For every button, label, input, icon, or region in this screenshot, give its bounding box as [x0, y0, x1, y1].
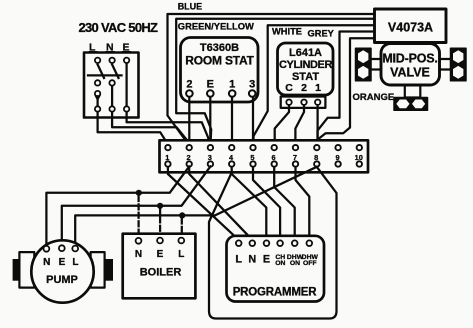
svg-text:1: 1 — [165, 153, 169, 162]
node L label (supply) — [89, 42, 98, 54]
room stat terminal 1 — [229, 90, 236, 97]
svg-text:OFF: OFF — [303, 260, 317, 267]
wire E column — [125, 64, 127, 106]
programmer terminal DHW ON — [292, 240, 298, 246]
programmer box — [227, 236, 325, 302]
wire blue (valve to terminal 2) — [168, 14, 375, 143]
svg-text:WHITE: WHITE — [272, 27, 302, 37]
junction terminal strip — [160, 140, 369, 172]
svg-text:BLUE: BLUE — [178, 1, 203, 11]
wire pump L / boiler L to terminal 8 — [75, 167, 317, 246]
svg-text:C: C — [285, 82, 293, 94]
boiler box — [123, 234, 196, 299]
programmer terminal L — [236, 240, 242, 246]
terminal 10 — [355, 145, 363, 167]
wire cyl stat 2 to terminal 7 — [295, 106, 304, 145]
cyl stat terminal 1 — [315, 100, 320, 105]
supply terminal N bottom — [109, 106, 114, 111]
cyl stat terminal 2 — [301, 100, 306, 105]
fuse F1 — [94, 91, 101, 102]
cyl stat terminal C — [286, 100, 291, 105]
pump body — [31, 240, 93, 302]
valve left pipe flange — [356, 48, 372, 80]
svg-text:L: L — [235, 254, 242, 266]
svg-text:T6360B: T6360B — [200, 42, 239, 54]
terminal 2 — [187, 145, 192, 167]
supply mid terminal L — [95, 80, 100, 85]
valve bottom pipe flange — [394, 98, 428, 111]
switch SW1 bar — [88, 74, 122, 76]
pump right flange — [91, 252, 113, 288]
svg-text:VALVE: VALVE — [390, 66, 430, 80]
svg-text:2: 2 — [186, 79, 192, 91]
cylinder stat terminal block — [281, 97, 326, 108]
wire terminal 2 to programmer N — [189, 167, 252, 240]
wire room stat 2 to terminal 2 — [188, 97, 190, 144]
pump terminal L — [72, 246, 78, 252]
wire cyl stat C to terminal 6 — [275, 106, 289, 145]
svg-text:3: 3 — [249, 79, 255, 91]
svg-text:PUMP: PUMP — [46, 274, 78, 286]
terminal 6 — [272, 145, 277, 167]
svg-text:6: 6 — [272, 153, 276, 162]
wire dashed to boiler L — [181, 219, 183, 238]
wire room stat 1 to terminal 4 — [231, 97, 233, 144]
wire pump E / boiler E to terminal 3 — [62, 167, 211, 246]
programmer terminal N — [250, 240, 256, 246]
supply isolator box — [84, 53, 139, 118]
svg-text:3: 3 — [208, 153, 212, 162]
supply terminal L top — [95, 58, 100, 63]
wire supply L to terminal 1 — [98, 113, 168, 145]
svg-text:E: E — [263, 254, 270, 266]
wire supply E to terminal 3 — [127, 113, 211, 145]
programmer terminal E — [264, 240, 270, 246]
valve V4073A box — [375, 9, 447, 43]
junction dot boiler E — [157, 203, 163, 209]
svg-text:7: 7 — [293, 153, 297, 162]
junction dot boiler N — [136, 190, 142, 196]
valve right pipe hex bottom — [453, 66, 463, 79]
supply terminal L bottom — [95, 106, 100, 111]
pump terminal E — [59, 245, 65, 251]
wire dashed to boiler N — [137, 196, 139, 238]
svg-text:MID-POS.: MID-POS. — [382, 52, 437, 66]
room stat terminal 3 — [249, 90, 256, 97]
programmer terminal CH ON — [277, 240, 283, 246]
svg-text:ON: ON — [275, 260, 285, 267]
boiler terminal N — [136, 238, 142, 244]
svg-text:CYLINDER: CYLINDER — [279, 59, 332, 71]
cylinder stat L641A box — [278, 43, 334, 95]
svg-text:1: 1 — [229, 79, 235, 91]
switch SW1 blade L — [98, 65, 104, 79]
valve left pipe hex top — [358, 50, 368, 63]
svg-text:E: E — [59, 257, 66, 268]
svg-text:N: N — [248, 254, 256, 266]
node N label (supply) — [106, 42, 116, 54]
supply terminal E bottom — [124, 106, 129, 111]
supply terminal E top — [124, 58, 129, 63]
svg-text:ORANGE: ORANGE — [353, 92, 395, 103]
terminal 4 — [229, 145, 234, 167]
wire terminal 4 to programmer E — [232, 167, 267, 240]
terminal 1 — [165, 145, 170, 167]
svg-text:L641A: L641A — [289, 47, 322, 59]
wire terminal 6 to programmer DHW ON — [274, 167, 295, 240]
svg-text:PROGRAMMER: PROGRAMMER — [233, 287, 318, 299]
wire green/yellow (valve to terminal 3) — [176, 19, 374, 145]
svg-text:L: L — [178, 249, 184, 260]
wire orange (valve to terminal 8) — [318, 38, 375, 139]
switch SW1 blade N — [112, 65, 118, 79]
svg-text:2: 2 — [187, 153, 191, 162]
room stat terminal 2 — [186, 90, 193, 97]
room stat terminal E — [207, 90, 214, 97]
svg-text:GREY: GREY — [308, 29, 335, 39]
terminal 8 — [314, 145, 319, 167]
wire L column — [96, 97, 98, 106]
wire N column — [111, 86, 113, 105]
wire terminal 5 to programmer CH ON — [253, 167, 280, 240]
wire supply N to terminal 2 — [112, 113, 190, 144]
valve left pipe hex bottom — [358, 66, 368, 79]
boiler terminal L — [178, 238, 184, 244]
svg-text:5: 5 — [250, 153, 254, 162]
boiler terminal E — [157, 238, 163, 244]
node E label (supply) — [122, 42, 131, 54]
valve left pipe connector — [371, 59, 382, 70]
room stat T6360B box — [181, 38, 259, 103]
svg-text:E: E — [157, 249, 164, 260]
junction dot boiler L — [179, 212, 185, 218]
wire grey (valve to terminal 8) — [318, 32, 375, 145]
svg-text:230 VAC 50HZ: 230 VAC 50HZ — [79, 20, 159, 35]
wire terminal 1 to programmer L — [168, 167, 239, 240]
svg-text:V4073A: V4073A — [388, 21, 433, 35]
terminal 3 — [208, 145, 213, 167]
svg-text:2: 2 — [301, 82, 307, 94]
wire cyl stat 1 to terminal 8 — [316, 106, 318, 145]
valve bottom pipe hex left — [396, 100, 409, 109]
wire dashed to boiler E — [159, 209, 161, 237]
svg-text:N: N — [135, 249, 142, 260]
terminal 7 — [293, 145, 298, 167]
wire pump N / boiler N to terminal 2 — [46, 167, 189, 246]
svg-text:10: 10 — [355, 153, 363, 162]
svg-text:L: L — [72, 257, 78, 268]
programmer terminal DHW OFF — [307, 240, 313, 246]
valve right pipe hex top — [453, 50, 463, 63]
svg-text:9: 9 — [335, 153, 339, 162]
pump terminal N — [44, 246, 50, 252]
svg-text:E: E — [207, 79, 214, 91]
valve bottom pipe hex right — [412, 100, 425, 109]
wire room stat 3 to terminal 5 — [252, 97, 254, 144]
svg-text:ROOM STAT: ROOM STAT — [185, 54, 254, 68]
svg-text:BOILER: BOILER — [140, 266, 182, 278]
svg-text:GREEN/YELLOW: GREEN/YELLOW — [178, 21, 254, 32]
mid-position valve body U1 — [381, 44, 440, 86]
wire loop terminal 4 around programmer to terminal 8 — [209, 167, 337, 318]
valve bottom pipe connector — [405, 85, 421, 98]
svg-text:ON: ON — [290, 260, 300, 267]
supply mid terminal N — [109, 80, 114, 85]
supply terminal N top — [109, 58, 114, 63]
terminal 9 — [335, 145, 340, 167]
svg-text:1: 1 — [315, 82, 321, 94]
valve right pipe flange — [451, 48, 467, 80]
wire terminal 7 to programmer DHW OFF — [296, 167, 310, 240]
valve right pipe connector — [440, 59, 452, 70]
svg-text:8: 8 — [314, 153, 318, 162]
wire white (valve to terminal 5) — [253, 25, 374, 144]
terminal 5 — [250, 145, 255, 167]
svg-text:N: N — [43, 257, 50, 268]
pump left flange — [13, 252, 35, 288]
wire room stat E to terminal 3 — [209, 97, 211, 144]
